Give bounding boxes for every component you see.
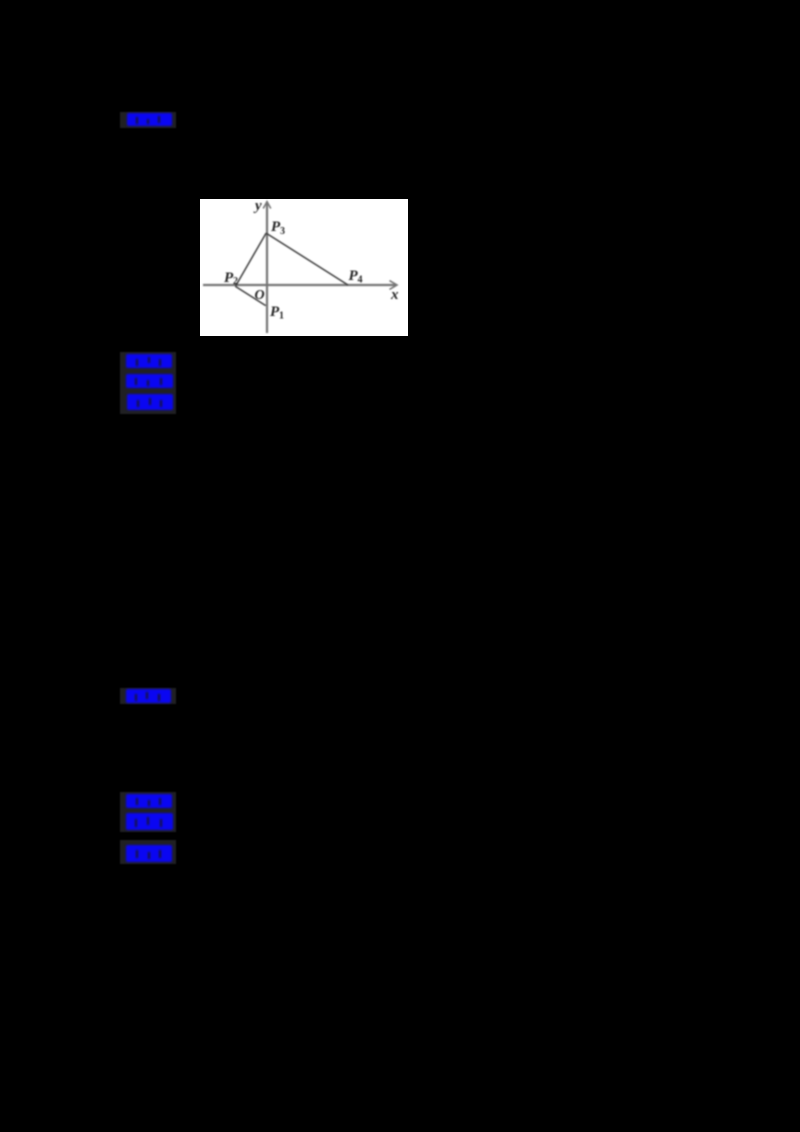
wire segment P3 to P4 bbox=[266, 233, 348, 285]
hyperlink block C bbox=[120, 688, 176, 704]
x-axis bbox=[203, 284, 397, 286]
link line B3 bbox=[127, 394, 173, 410]
y-axis arrowhead bbox=[263, 202, 271, 209]
x-axis arrowhead bbox=[390, 281, 398, 290]
svg-text:4: 4 bbox=[358, 275, 363, 286]
y-axis bbox=[266, 202, 268, 333]
svg-text:O: O bbox=[255, 288, 265, 303]
wire segment P2 to P3 bbox=[235, 233, 266, 286]
svg-text:x: x bbox=[390, 287, 399, 303]
hyperlink block E bbox=[120, 840, 176, 864]
link line D1 bbox=[126, 794, 172, 808]
svg-text:3: 3 bbox=[280, 226, 285, 237]
figure: white coordinate diagram bbox=[200, 199, 408, 336]
link line B2 bbox=[126, 374, 173, 388]
hyperlink block B (three link lines) bbox=[120, 352, 176, 414]
wire segment P2 to P1 bbox=[235, 286, 265, 305]
link line B1 bbox=[126, 354, 172, 368]
svg-text:1: 1 bbox=[279, 311, 284, 322]
svg-text:2: 2 bbox=[233, 276, 238, 287]
hyperlink block A (answer link line 1) bbox=[120, 112, 176, 128]
svg-text:y: y bbox=[253, 199, 262, 214]
hyperlink block D (two link lines) bbox=[120, 792, 176, 832]
link line D2 bbox=[126, 813, 173, 830]
